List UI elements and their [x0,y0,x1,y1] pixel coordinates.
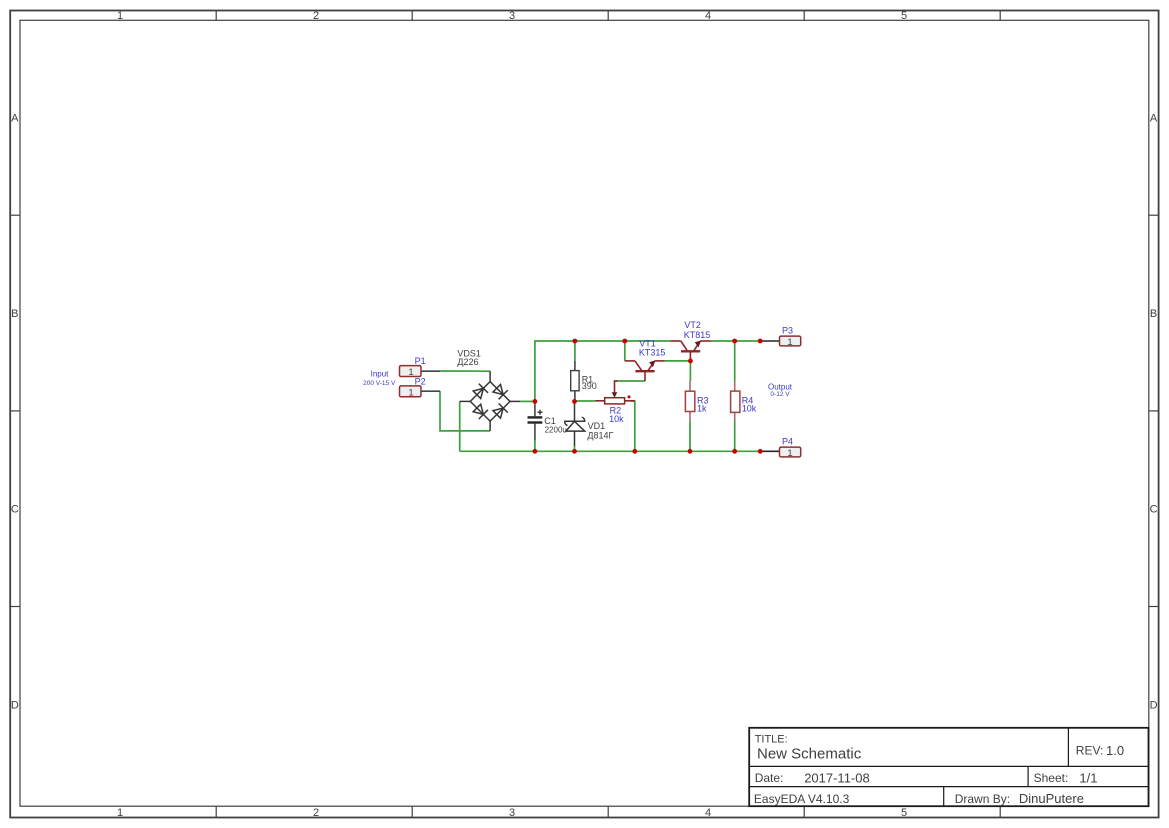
zener diode VD1 [565,404,585,446]
wire R4 top [734,341,736,381]
connector P1 [400,366,441,378]
wire top rail to VT1 collector [624,341,626,361]
svg-text:C: C [11,504,19,516]
capacitor C1 [528,404,543,440]
row ticks right [1149,215,1159,606]
transistor VT1 KT315 [625,361,665,382]
svg-text:4: 4 [705,807,711,819]
column ticks top [216,11,1000,21]
wire node A to R2 left [575,400,596,402]
svg-text:Drawn By:: Drawn By: [955,792,1010,806]
column numbers top [117,10,907,22]
svg-text:1k: 1k [697,404,707,414]
svg-text:1: 1 [787,448,792,459]
svg-text:C1: C1 [544,416,556,426]
svg-text:A: A [11,113,19,125]
wire bottom ground rail [460,450,761,452]
row letters left [11,113,19,712]
junction VT1 collector [622,339,627,344]
row letters right [1150,113,1158,712]
connector P2 [400,386,441,398]
wire R1 top [574,341,576,361]
junction R4 ground [732,449,737,454]
connector P4 [760,447,801,459]
wire VD1 top [574,401,576,404]
svg-text:10k: 10k [609,414,624,424]
junction P3 pin [758,339,763,344]
wire P1 to bridge top [440,370,490,372]
svg-text:Sheet:: Sheet: [1034,771,1069,785]
svg-text:New Schematic: New Schematic [757,746,862,763]
junction P4 pin [758,449,763,454]
svg-text:KT315: KT315 [639,347,666,357]
svg-text:1: 1 [787,337,792,348]
svg-text:2: 2 [313,807,319,819]
column numbers bottom [117,807,907,819]
transistor VT2 KT815 [670,341,710,361]
svg-text:D: D [11,700,19,712]
svg-text:VT2: VT2 [684,320,701,330]
svg-text:10k: 10k [742,404,757,414]
svg-text:0-12 V: 0-12 V [770,391,790,398]
svg-text:4: 4 [705,10,711,22]
svg-text:D: D [1150,700,1158,712]
svg-text:Д226: Д226 [457,357,478,367]
wire node A up and top rail [535,341,671,401]
diode D-bl [473,404,483,414]
svg-text:B: B [11,308,18,320]
svg-text:2: 2 [313,10,319,22]
wire node B to R3 top [689,361,691,381]
svg-text:EasyEDA V4.10.3: EasyEDA V4.10.3 [754,792,850,806]
wire bridge right to node A [520,400,535,402]
svg-text:1: 1 [408,367,413,378]
diode D-tr [493,385,503,395]
svg-text:1: 1 [117,10,123,22]
svg-text:P2: P2 [415,376,426,386]
svg-text:REV:: REV: [1076,744,1104,758]
svg-text:P4: P4 [782,437,793,447]
junction R1 top [573,339,578,344]
bridge rectifier VDS1 [460,371,521,431]
wire R4 bottom [734,421,736,451]
column ticks bottom [216,806,1000,817]
svg-text:P3: P3 [782,326,793,336]
wire R2 right to ground rail [631,401,635,451]
title block [749,728,1148,806]
wire R2 wiper to VT1 base [615,380,646,382]
resistor R3 [685,381,694,421]
diode D-br [493,408,503,418]
connector P3 [760,336,801,348]
svg-text:1.0: 1.0 [1106,743,1124,758]
svg-text:A: A [1150,113,1158,125]
junction VD1 ground [572,449,577,454]
junction node A (bridge/C1/top rail) [533,399,538,404]
svg-text:5: 5 [901,807,907,819]
svg-text:1/1: 1/1 [1079,770,1097,785]
diode D-tl [473,388,483,398]
wire VT2 emitter to P3 [711,340,761,342]
svg-text:Date:: Date: [755,771,784,785]
svg-text:TITLE:: TITLE: [755,734,788,746]
svg-text:Д814Г: Д814Г [587,430,613,440]
svg-text:5: 5 [901,10,907,22]
wire P2 to bridge bottom [440,391,490,431]
resistor R4 [731,381,740,421]
svg-text:KT815: KT815 [684,330,711,340]
junction R1/VD1/R2 [572,399,577,404]
title block text [754,734,1124,807]
wire VD1 bottom [574,446,576,451]
svg-text:C: C [1150,504,1158,516]
svg-text:1: 1 [117,807,123,819]
wire C1 bottom [534,441,536,452]
svg-text:P1: P1 [415,356,426,366]
wire R3 bottom to ground rail [689,421,691,451]
junction C1 ground [533,449,538,454]
junction node B (VT1 emitter/VT2 base/R3) [688,359,693,364]
wire C1 top [534,401,536,404]
svg-text:1: 1 [408,387,413,398]
junction R4 top [732,339,737,344]
svg-text:2017-11-08: 2017-11-08 [804,770,870,785]
svg-text:200 V-15 V: 200 V-15 V [363,380,396,387]
svg-text:Input: Input [371,370,390,379]
junction R2 ground [632,449,637,454]
wire bridge left to ground rail [459,401,461,451]
svg-text:B: B [1150,308,1157,320]
svg-text:3: 3 [509,10,515,22]
svg-text:3: 3 [509,807,515,819]
svg-text:390: 390 [582,381,597,391]
resistor R1 [571,361,579,401]
svg-text:DinuPutere: DinuPutere [1019,791,1084,806]
wire VT1 emitter to VT2 base node [665,360,691,362]
svg-text:2200u: 2200u [545,426,567,435]
potentiometer R2 [595,381,634,404]
row ticks left [10,215,20,606]
junction R3 ground [688,449,693,454]
